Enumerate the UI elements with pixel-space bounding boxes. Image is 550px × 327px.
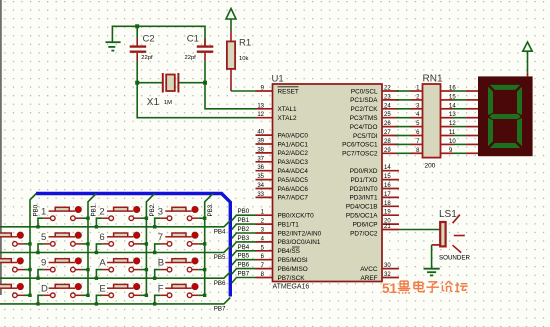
wire C1 top lead bbox=[204, 39, 206, 46]
svg-text:PB3.: PB3. bbox=[207, 203, 214, 217]
wire row PB7 bbox=[0, 298, 230, 304]
svg-text:37: 37 bbox=[257, 156, 264, 162]
button C bbox=[0, 284, 32, 306]
RN1 left pin numbers bbox=[416, 86, 420, 154]
svg-text:PA5/ADC5: PA5/ADC5 bbox=[278, 177, 309, 184]
svg-text:PD3/INT1: PD3/INT1 bbox=[349, 195, 378, 202]
wire C1 bottom lead bbox=[204, 53, 206, 61]
capacitor C2 bbox=[130, 47, 147, 52]
button D bbox=[36, 283, 89, 305]
svg-text:7: 7 bbox=[158, 232, 163, 243]
svg-text:E: E bbox=[99, 283, 105, 294]
svg-text:1: 1 bbox=[41, 206, 46, 217]
node junction C2 top bbox=[135, 24, 139, 28]
svg-text:33: 33 bbox=[257, 192, 264, 198]
svg-text:10k: 10k bbox=[239, 56, 248, 62]
SS overline bbox=[292, 246, 300, 248]
svg-text:PD0/RXD: PD0/RXD bbox=[350, 168, 378, 175]
svg-text:PB3: PB3 bbox=[238, 235, 250, 242]
wires chip PC pins to RN1 pins 1-8 bbox=[396, 91, 411, 153]
svg-text:LS1: LS1 bbox=[439, 209, 457, 220]
svg-text:X1: X1 bbox=[147, 97, 160, 108]
svg-text:C2: C2 bbox=[143, 34, 155, 45]
svg-text:PC2/TCK: PC2/TCK bbox=[351, 106, 379, 113]
button E bbox=[95, 283, 148, 305]
svg-text:9: 9 bbox=[41, 258, 46, 269]
svg-text:AVCC: AVCC bbox=[360, 266, 378, 273]
svg-text:PB2.: PB2. bbox=[149, 203, 156, 217]
RN1 left pin stubs bbox=[411, 91, 423, 153]
svg-text:28: 28 bbox=[384, 139, 391, 145]
button 3 bbox=[153, 206, 206, 228]
svg-text:27: 27 bbox=[384, 130, 391, 136]
svg-text:PB0/XCK/T0: PB0/XCK/T0 bbox=[278, 213, 315, 220]
button 7 bbox=[153, 232, 206, 254]
svg-text:PB4/SS: PB4/SS bbox=[278, 248, 300, 255]
svg-text:40: 40 bbox=[257, 130, 264, 136]
svg-text:22pf: 22pf bbox=[185, 55, 197, 61]
left pin names bbox=[278, 88, 322, 281]
wire row PB4 bbox=[0, 220, 230, 226]
svg-text:17: 17 bbox=[384, 192, 391, 198]
svg-text:PC6/TOSC1: PC6/TOSC1 bbox=[342, 142, 378, 149]
svg-text:12: 12 bbox=[257, 112, 264, 118]
RN1 right pin stubs bbox=[441, 91, 453, 153]
svg-text:1M: 1M bbox=[164, 100, 172, 106]
svg-text:B: B bbox=[158, 258, 164, 269]
svg-text:PB5/MOSI: PB5/MOSI bbox=[278, 257, 308, 264]
svg-text:2: 2 bbox=[99, 206, 104, 217]
button 5 bbox=[36, 232, 89, 254]
capacitor C1 bbox=[197, 47, 214, 52]
wires RN1 to display bbox=[453, 91, 467, 153]
svg-text:PC7/TOSC2: PC7/TOSC2 bbox=[342, 151, 378, 158]
RESET overline bbox=[278, 86, 299, 88]
wire to ground bbox=[431, 245, 433, 269]
wire labels PB0-PB7 bbox=[238, 208, 250, 277]
svg-text:5: 5 bbox=[41, 232, 46, 243]
column line PB0 bbox=[30, 194, 36, 296]
svg-text:PD6/ICP: PD6/ICP bbox=[353, 221, 378, 228]
svg-text:PB0: PB0 bbox=[238, 208, 250, 215]
wire row PB5 bbox=[0, 246, 230, 252]
svg-text:PB1: PB1 bbox=[238, 217, 250, 224]
sound waves bbox=[453, 215, 465, 253]
svg-text:PB1/T1: PB1/T1 bbox=[278, 221, 300, 228]
svg-text:38: 38 bbox=[257, 147, 264, 153]
button A bbox=[95, 258, 148, 280]
svg-text:U1: U1 bbox=[272, 74, 284, 85]
svg-text:PB4: PB4 bbox=[238, 244, 250, 251]
svg-text:PA6/ADC6: PA6/ADC6 bbox=[278, 186, 309, 193]
svg-text:26: 26 bbox=[384, 121, 391, 127]
svg-text:30: 30 bbox=[384, 263, 391, 269]
button 8 bbox=[0, 258, 32, 280]
display pin stubs bbox=[466, 91, 478, 153]
svg-text:SOUNDER: SOUNDER bbox=[439, 255, 470, 262]
svg-text:32: 32 bbox=[384, 272, 391, 278]
wire row PB6 bbox=[0, 272, 230, 278]
left pin stubs bbox=[256, 91, 273, 278]
wire XTAL1 net bbox=[205, 83, 256, 109]
svg-text:RESET: RESET bbox=[278, 88, 299, 95]
wire crystal right bbox=[178, 82, 205, 84]
svg-text:PA7/ADC7: PA7/ADC7 bbox=[278, 195, 309, 202]
resistor R1 bbox=[230, 31, 232, 41]
left pin numbers bbox=[257, 86, 264, 279]
svg-text:PC0/SCL: PC0/SCL bbox=[351, 88, 378, 95]
svg-text:PB3/OC0/AIN1: PB3/OC0/AIN1 bbox=[278, 239, 321, 246]
svg-text:PB1.: PB1. bbox=[91, 203, 98, 217]
svg-text:14: 14 bbox=[384, 165, 391, 171]
svg-text:PA3/ADC3: PA3/ADC3 bbox=[278, 159, 309, 166]
svg-text:ATMEGA16: ATMEGA16 bbox=[273, 284, 310, 291]
wire C2 top lead bbox=[136, 26, 138, 38]
svg-text:PB4: PB4 bbox=[214, 229, 226, 236]
window left edge strip bbox=[0, 0, 2, 295]
svg-text:PB5: PB5 bbox=[214, 254, 226, 261]
svg-text:PD4/OC1B: PD4/OC1B bbox=[346, 204, 378, 211]
svg-text:51: 51 bbox=[382, 281, 398, 296]
wire C2 bottom lead bbox=[136, 53, 138, 61]
svg-text:PA4/ADC4: PA4/ADC4 bbox=[278, 168, 309, 175]
svg-text:PC3/TMS: PC3/TMS bbox=[350, 115, 378, 122]
wire pin 21 to sounder bbox=[399, 229, 440, 231]
svg-text:F: F bbox=[158, 283, 164, 294]
right pin numbers bbox=[384, 86, 391, 279]
button F bbox=[153, 283, 206, 305]
bus bbox=[36, 194, 230, 297]
svg-text:PD7/OC2: PD7/OC2 bbox=[350, 230, 378, 237]
wire crystal left bbox=[137, 82, 163, 84]
right pin stubs bbox=[382, 91, 399, 278]
svg-text:XTAL1: XTAL1 bbox=[278, 106, 298, 113]
button 1 bbox=[36, 206, 89, 228]
crystal X1 bbox=[162, 73, 164, 93]
svg-text:PD1/TXD: PD1/TXD bbox=[351, 177, 378, 184]
right pin names bbox=[342, 88, 378, 281]
wire XTAL2 net bbox=[137, 83, 255, 118]
svg-text:C1: C1 bbox=[187, 34, 199, 45]
svg-text:PB6/MISO: PB6/MISO bbox=[278, 266, 308, 273]
button 2 bbox=[95, 206, 148, 228]
svg-text:16: 16 bbox=[384, 183, 391, 189]
svg-text:PB7: PB7 bbox=[214, 306, 226, 313]
power VCC arrow top bbox=[226, 9, 236, 20]
svg-text:24: 24 bbox=[384, 103, 391, 109]
column line PB3 bbox=[205, 194, 213, 296]
node junction crystal right bbox=[203, 81, 207, 85]
button 4 bbox=[0, 232, 32, 254]
svg-text:PB2/INT2/AIN0: PB2/INT2/AIN0 bbox=[278, 230, 322, 237]
svg-text:PC5/TDI: PC5/TDI bbox=[353, 133, 378, 140]
svg-text:PC4/TDO: PC4/TDO bbox=[350, 124, 378, 131]
svg-text:PB7: PB7 bbox=[238, 271, 250, 278]
svg-text:36: 36 bbox=[257, 165, 264, 171]
svg-text:6: 6 bbox=[99, 232, 104, 243]
svg-text:34: 34 bbox=[257, 183, 264, 189]
svg-text:PD2/INT0: PD2/INT0 bbox=[349, 186, 378, 193]
svg-text:PA0/ADC0: PA0/ADC0 bbox=[278, 132, 309, 139]
svg-text:AREF: AREF bbox=[360, 275, 377, 282]
svg-text:PC1/SDA: PC1/SDA bbox=[350, 97, 378, 104]
orange forum text CJK bbox=[398, 281, 468, 294]
wires PB0-PB7 from bus to chip pins bbox=[232, 215, 256, 283]
ground sounder bbox=[424, 269, 440, 276]
svg-text:25: 25 bbox=[384, 112, 391, 118]
svg-text:D: D bbox=[41, 283, 48, 294]
button 6 bbox=[95, 232, 148, 254]
svg-text:PD5/OC1A: PD5/OC1A bbox=[346, 213, 378, 220]
wire R1 to RESET pin 9 bbox=[230, 69, 232, 91]
svg-text:19: 19 bbox=[384, 210, 391, 216]
node junction crystal left bbox=[135, 81, 139, 85]
svg-text:PB0.: PB0. bbox=[33, 203, 40, 217]
seven segment digit 8 bbox=[488, 85, 523, 149]
sounder bottom pin bbox=[432, 244, 441, 246]
svg-text:A: A bbox=[99, 258, 106, 269]
display common wire to power bbox=[527, 73, 529, 77]
column line PB2 bbox=[146, 194, 154, 296]
sounder body bbox=[440, 222, 445, 246]
svg-text:18: 18 bbox=[384, 201, 391, 207]
svg-text:35: 35 bbox=[257, 174, 264, 180]
ground bbox=[106, 42, 121, 50]
svg-text:13: 13 bbox=[257, 103, 264, 109]
button B bbox=[153, 258, 206, 280]
svg-text:PA1/ADC1: PA1/ADC1 bbox=[278, 141, 309, 148]
svg-text:PB6: PB6 bbox=[214, 280, 226, 287]
svg-text:22pf: 22pf bbox=[141, 55, 153, 61]
svg-text:PA2/ADC2: PA2/ADC2 bbox=[278, 150, 309, 157]
svg-text:RN1: RN1 bbox=[423, 74, 443, 85]
power VCC arrow display bbox=[523, 42, 532, 51]
wire top rail bbox=[112, 26, 205, 45]
svg-text:R1: R1 bbox=[239, 38, 251, 49]
svg-text:3: 3 bbox=[158, 206, 163, 217]
svg-text:PB5: PB5 bbox=[238, 253, 250, 260]
column line PB1 bbox=[88, 194, 96, 296]
svg-text:PB2: PB2 bbox=[238, 226, 250, 233]
svg-text:PB7/SCK: PB7/SCK bbox=[278, 275, 306, 282]
svg-text:200: 200 bbox=[425, 163, 436, 170]
svg-text:39: 39 bbox=[257, 139, 264, 145]
svg-text:23: 23 bbox=[384, 94, 391, 100]
svg-text:XTAL2: XTAL2 bbox=[278, 115, 298, 122]
svg-text:22: 22 bbox=[384, 86, 391, 92]
svg-text:15: 15 bbox=[384, 174, 391, 180]
button 9 bbox=[36, 258, 89, 280]
svg-text:21: 21 bbox=[384, 224, 391, 230]
svg-text:PB6: PB6 bbox=[238, 262, 250, 269]
svg-text:29: 29 bbox=[384, 148, 391, 154]
RN1 right pin numbers bbox=[449, 86, 456, 154]
